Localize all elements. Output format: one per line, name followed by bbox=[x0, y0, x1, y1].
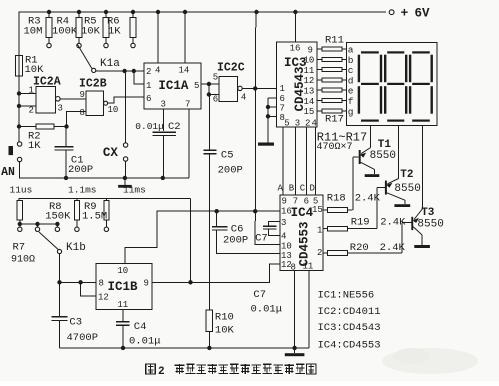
resistor R19 2.4K bbox=[323, 217, 406, 232]
svg-text:IC1A: IC1A bbox=[158, 79, 189, 93]
svg-text:IC2A: IC2A bbox=[33, 76, 61, 89]
pin 4 IC3 / wire D to IC4 pin 5 bbox=[312, 119, 317, 196]
gate IC2A (CD4011) bbox=[33, 76, 61, 113]
svg-text:10K: 10K bbox=[215, 325, 235, 337]
resistor R18 2.4K bbox=[323, 193, 381, 213]
pin 16 IC3 wire to rail bbox=[290, 12, 301, 54]
label C7 0.01u bbox=[251, 289, 283, 316]
svg-text:g: g bbox=[348, 106, 354, 117]
wire K1b wiper to IC1B pin8 bbox=[57, 254, 96, 285]
wire bottom ground rail bbox=[60, 346, 310, 350]
pin 8 IC3 bbox=[268, 113, 285, 123]
gate IC2C (CD4011) bbox=[217, 62, 245, 102]
svg-text:1.1ms: 1.1ms bbox=[68, 184, 97, 195]
pin 14 IC1A wire to rail bbox=[179, 12, 190, 76]
svg-text:10K: 10K bbox=[25, 64, 45, 76]
pin 1 IC2A bbox=[19, 86, 36, 96]
svg-text:0.01μ: 0.01μ bbox=[129, 336, 161, 348]
ground symbol T2 bbox=[394, 204, 410, 207]
resistor R20 2.4K bbox=[323, 242, 406, 255]
capacitor C1 200P bbox=[55, 128, 94, 178]
svg-text:IC3:CD4543: IC3:CD4543 bbox=[318, 322, 381, 334]
pin 2 IC1A bbox=[146, 67, 151, 77]
svg-text:C: C bbox=[300, 184, 306, 194]
label R17 bbox=[325, 114, 344, 126]
svg-text:IC2C: IC2C bbox=[217, 62, 245, 75]
svg-text:8: 8 bbox=[99, 279, 104, 289]
decoder IC3 CD4543 bbox=[277, 42, 317, 127]
svg-text:0.01μ: 0.01μ bbox=[251, 304, 283, 316]
svg-text:470Ω×7: 470Ω×7 bbox=[317, 142, 353, 153]
wire IC1B pin10 to IC4 pin16 (with C6 tap) bbox=[125, 209, 280, 263]
svg-text:R11: R11 bbox=[325, 35, 344, 47]
pin 12 IC1B bbox=[98, 293, 109, 303]
svg-text:T2: T2 bbox=[400, 169, 413, 181]
counter IC4 CD4553 bbox=[280, 195, 323, 271]
pin 10 IC4 bbox=[281, 242, 292, 252]
svg-text:200P: 200P bbox=[68, 164, 93, 176]
svg-text:IC2:CD4011: IC2:CD4011 bbox=[318, 306, 381, 318]
pin 4 IC1A wire to rail bbox=[155, 12, 160, 76]
caption figure 2 (Chinese) bbox=[146, 364, 316, 378]
label IC1:NE556 bbox=[318, 290, 375, 302]
pin 7 IC4 bbox=[293, 197, 298, 207]
svg-text:3: 3 bbox=[281, 218, 286, 228]
ground symbol T1 bbox=[365, 174, 380, 177]
svg-text:8550: 8550 bbox=[370, 150, 396, 162]
svg-text:+: + bbox=[401, 6, 409, 21]
label R11~R17 470ohm x 7 bbox=[317, 130, 368, 153]
svg-text:9: 9 bbox=[144, 279, 149, 289]
svg-text:150K: 150K bbox=[45, 211, 71, 223]
svg-text:8550: 8550 bbox=[394, 183, 420, 195]
svg-text:3: 3 bbox=[161, 100, 166, 110]
wire branch to IC1B pin12 bbox=[81, 282, 96, 296]
wire IC1A pin5 to IC2C inputs bbox=[201, 82, 219, 97]
svg-text:2: 2 bbox=[158, 366, 165, 378]
svg-text:C7: C7 bbox=[253, 289, 266, 301]
svg-text:2: 2 bbox=[29, 105, 34, 115]
svg-text:5: 5 bbox=[194, 81, 199, 91]
svg-text:3: 3 bbox=[58, 104, 63, 114]
svg-text:200P: 200P bbox=[223, 235, 248, 247]
pin 8 IC1B bbox=[99, 279, 104, 289]
svg-text:13: 13 bbox=[304, 87, 315, 97]
svg-text:200P: 200P bbox=[218, 165, 243, 177]
node +6V terminal bbox=[389, 6, 430, 21]
svg-text:R17: R17 bbox=[325, 114, 344, 126]
pin 1 IC4 bbox=[317, 226, 322, 236]
svg-text:14: 14 bbox=[304, 97, 315, 107]
timer IC1A (NE556 half) bbox=[144, 63, 201, 109]
ground symbol bottom rail bbox=[285, 348, 305, 356]
svg-text:11: 11 bbox=[304, 66, 315, 76]
capacitor C3 4700P bbox=[52, 282, 99, 348]
pin 5 IC1A bbox=[194, 81, 199, 91]
svg-text:10K: 10K bbox=[81, 26, 101, 38]
pin 5 IC3 / wire A to IC4 pin 9 bbox=[283, 119, 290, 196]
pin 1 IC3 bbox=[280, 84, 285, 94]
junction dots on top rail bbox=[47, 10, 298, 14]
svg-text:C7: C7 bbox=[255, 233, 268, 245]
pin 9 IC4 bbox=[282, 197, 287, 207]
gate IC2B (CD4011) bbox=[79, 78, 107, 116]
pin 6 IC2C bbox=[213, 94, 218, 104]
svg-text:IC1B: IC1B bbox=[108, 280, 139, 294]
svg-text:R18: R18 bbox=[327, 193, 346, 205]
wire IC4 pin13 from C6 bbox=[0, 0, 1, 1]
svg-text:11us: 11us bbox=[10, 185, 33, 196]
pin 9 IC1B bbox=[144, 279, 149, 289]
pin 10 IC1B bbox=[117, 266, 128, 276]
svg-text:6: 6 bbox=[213, 94, 218, 104]
svg-text:11: 11 bbox=[117, 300, 128, 310]
svg-text:5: 5 bbox=[213, 72, 218, 82]
node CX capacitor under test bbox=[103, 73, 128, 178]
svg-text:6V: 6V bbox=[415, 7, 431, 21]
svg-text:16: 16 bbox=[281, 207, 292, 217]
junction dots ground bus bbox=[64, 176, 165, 180]
label IC2:CD4011 bbox=[318, 306, 381, 318]
svg-text:IC4: IC4 bbox=[291, 206, 314, 220]
capacitor C2 0.01u bbox=[135, 121, 180, 178]
capacitor C7 (IC4 pins 3-4) bbox=[255, 222, 280, 245]
pin 6 IC4 bbox=[304, 197, 309, 207]
svg-text:CD4553: CD4553 bbox=[297, 221, 311, 266]
svg-text:2: 2 bbox=[146, 67, 151, 77]
wire R8 rail down to pin9 net bbox=[190, 199, 192, 283]
svg-text:IC2B: IC2B bbox=[79, 78, 107, 91]
capacitor C5 200P bbox=[203, 95, 243, 310]
wire +6V top supply rail bbox=[19, 12, 386, 144]
pin 2 IC4 bbox=[317, 248, 322, 258]
wire display digit3 to T3 emitter bbox=[421, 126, 423, 210]
label IC4:CD4553 bbox=[318, 340, 381, 352]
svg-text:10: 10 bbox=[117, 266, 128, 276]
svg-text:4: 4 bbox=[241, 92, 246, 102]
pin 9 IC2B bbox=[80, 90, 85, 100]
resistors R11-R17 470 ohm x7 bbox=[317, 47, 347, 113]
ground symbol IC3 bbox=[258, 143, 274, 146]
svg-text:16: 16 bbox=[290, 44, 301, 54]
svg-text:1K: 1K bbox=[108, 26, 121, 38]
wire R18 to T1 base bbox=[352, 157, 354, 210]
pin 4 IC2C output bubble bbox=[238, 86, 247, 102]
pin 15 IC4 bbox=[312, 205, 323, 215]
svg-text:12: 12 bbox=[304, 76, 315, 86]
svg-text:15: 15 bbox=[304, 107, 315, 117]
svg-text:7: 7 bbox=[185, 100, 190, 110]
svg-text:10: 10 bbox=[304, 56, 315, 66]
svg-text:K1a: K1a bbox=[100, 58, 120, 70]
wire IC2C out to IC3 pin1 bbox=[242, 86, 276, 90]
wire display digit1 to T1 emitter bbox=[370, 126, 372, 148]
wire IC1B pin9 to IC4 pin12 bbox=[152, 264, 280, 285]
wire AN bottom to ground bus bbox=[20, 162, 189, 178]
resistor R3 10M bbox=[24, 12, 53, 48]
svg-text:9: 9 bbox=[282, 197, 287, 207]
svg-text:C2: C2 bbox=[168, 121, 181, 133]
svg-text:10: 10 bbox=[108, 105, 119, 115]
label IC3:CD4543 bbox=[318, 322, 381, 334]
label 1.1ms bbox=[68, 184, 97, 195]
switch K1a wiper bbox=[78, 45, 121, 73]
label 11us bbox=[10, 185, 33, 196]
wire IC4 pin11 to rail bbox=[308, 271, 310, 348]
svg-text:10M: 10M bbox=[24, 26, 43, 38]
pin 2 IC2A bbox=[19, 105, 36, 115]
pin 11 IC4 bbox=[303, 262, 314, 272]
svg-text:IC4:CD4553: IC4:CD4553 bbox=[318, 340, 381, 352]
label R11 bbox=[325, 35, 344, 47]
svg-text:14: 14 bbox=[179, 66, 190, 76]
resistor R10 10K bbox=[206, 310, 234, 348]
svg-text:3: 3 bbox=[295, 119, 300, 129]
wire IC2A pin3 to IC2B pin9 bbox=[60, 98, 86, 100]
svg-text:1: 1 bbox=[29, 86, 34, 96]
svg-text:IC1:NE556: IC1:NE556 bbox=[318, 290, 375, 302]
svg-text:2: 2 bbox=[305, 119, 310, 129]
switch K1b wiper bbox=[39, 232, 86, 254]
label 11ms bbox=[123, 184, 146, 195]
svg-text:R19: R19 bbox=[351, 217, 370, 229]
pin 10 IC2B output bubble bbox=[104, 101, 119, 115]
svg-text:T3: T3 bbox=[421, 207, 435, 219]
svg-text:D: D bbox=[310, 184, 315, 194]
timer IC1B (NE556 half) bbox=[96, 263, 152, 309]
svg-text:10: 10 bbox=[281, 242, 292, 252]
svg-text:4: 4 bbox=[281, 232, 286, 242]
resistor R4 100K bbox=[52, 12, 82, 48]
resistor R5 10K bbox=[81, 12, 109, 48]
pin 2 IC3 / wire C to IC4 pin 6 bbox=[305, 119, 310, 196]
pin 12 IC4 bbox=[281, 260, 292, 270]
svg-text:R10: R10 bbox=[215, 312, 234, 324]
transistor T3 8550 bbox=[402, 207, 444, 245]
svg-text:C4: C4 bbox=[134, 321, 147, 333]
svg-text:1: 1 bbox=[280, 84, 285, 94]
pin 4 IC4 bbox=[281, 232, 286, 242]
resistor R8 150K bbox=[45, 199, 79, 232]
svg-text:AN: AN bbox=[1, 166, 15, 179]
pin 5 IC2C bbox=[213, 72, 218, 82]
svg-text:7: 7 bbox=[293, 197, 298, 207]
svg-text:8: 8 bbox=[80, 108, 85, 118]
svg-text:11ms: 11ms bbox=[123, 184, 146, 195]
wire IC3 pins 6,7,8 to ground bbox=[266, 98, 270, 143]
3-digit 7-segment LED display bbox=[347, 42, 438, 125]
wire IC2B pin10 to IC1A pin6 bbox=[108, 97, 145, 103]
svg-text:6: 6 bbox=[304, 197, 309, 207]
svg-text:4700P: 4700P bbox=[67, 332, 99, 344]
wire display digit2 to T2 emitter bbox=[398, 126, 400, 179]
svg-text:7: 7 bbox=[280, 103, 285, 113]
resistor R6 1K bbox=[107, 12, 136, 48]
junction R2/C1/IC2B pin8 bbox=[64, 124, 68, 128]
transistor T1 8550 bbox=[353, 139, 396, 174]
svg-text:R7: R7 bbox=[13, 242, 26, 254]
svg-text:4: 4 bbox=[312, 119, 317, 129]
pin 3 IC3 / wire B to IC4 pin 7 bbox=[295, 119, 300, 196]
svg-text:K1b: K1b bbox=[66, 242, 86, 254]
node C bbox=[300, 184, 306, 194]
push button AN bbox=[1, 142, 22, 179]
resistor R2 1K bbox=[19, 124, 67, 152]
pin 5 IC4 bbox=[313, 197, 318, 207]
svg-text:B: B bbox=[289, 184, 295, 194]
wire R19 to T2 base bbox=[376, 188, 378, 229]
wire K1b contact bar bbox=[18, 222, 60, 227]
pin 3 IC4 bbox=[281, 218, 286, 228]
capacitor C6 200P bbox=[212, 211, 280, 253]
svg-text:C5: C5 bbox=[221, 150, 234, 162]
pin 8 IC2B bbox=[67, 108, 86, 126]
wire timing resistor rail bbox=[19, 199, 191, 201]
ground symbol at CX bbox=[118, 178, 132, 188]
resistor R7 910ohm bbox=[11, 200, 35, 265]
svg-text:910Ω: 910Ω bbox=[11, 255, 35, 266]
svg-text:6: 6 bbox=[146, 94, 151, 104]
resistor R9 1.5M bbox=[82, 199, 109, 232]
node B bbox=[289, 184, 295, 194]
pin 11 IC1B bbox=[117, 300, 128, 310]
pin 13 IC4 bbox=[281, 251, 292, 261]
svg-text:4: 4 bbox=[155, 66, 160, 76]
svg-text:1K: 1K bbox=[28, 140, 41, 152]
ground symbol T3 bbox=[414, 245, 430, 248]
node D bbox=[310, 184, 315, 194]
svg-text:1.5M: 1.5M bbox=[82, 211, 107, 223]
capacitor C4 0.01u bbox=[116, 309, 160, 348]
svg-text:R20: R20 bbox=[350, 242, 369, 254]
svg-text:5: 5 bbox=[284, 119, 289, 129]
wire R20 to T3 base bbox=[401, 223, 403, 254]
resistor R1 10K bbox=[16, 55, 44, 77]
svg-text:100K: 100K bbox=[52, 26, 78, 38]
pin 16 IC4 bbox=[281, 207, 292, 217]
svg-text:12: 12 bbox=[98, 293, 109, 303]
svg-text:11: 11 bbox=[303, 262, 314, 272]
svg-text:A: A bbox=[278, 184, 284, 194]
wire IC4 pin8 to rail bbox=[294, 271, 296, 348]
svg-text:C3: C3 bbox=[69, 317, 82, 329]
svg-text:2: 2 bbox=[317, 248, 322, 258]
junction dots left rail bbox=[17, 91, 21, 128]
pin 7 IC3 bbox=[268, 103, 285, 113]
K1b throw contacts bbox=[18, 227, 60, 231]
pin 8 IC4 bbox=[291, 263, 296, 273]
pin 7 IC1A wire down to ground bus bbox=[185, 100, 190, 178]
svg-text:8550: 8550 bbox=[417, 219, 443, 231]
pin 1 IC1A bbox=[146, 81, 151, 91]
pin 6 IC1A bbox=[146, 94, 151, 104]
svg-text:0.01μ: 0.01μ bbox=[135, 121, 164, 132]
pin 6 IC3 bbox=[268, 94, 285, 104]
svg-text:CX: CX bbox=[103, 146, 119, 160]
transistor T2 8550 bbox=[377, 169, 421, 204]
wire K1a to IC1A pins 2,1 bbox=[96, 69, 144, 84]
node A bbox=[278, 184, 284, 194]
pin 3 IC2A output bubble bbox=[56, 97, 63, 114]
svg-text:1: 1 bbox=[317, 226, 322, 236]
wire IC2C out down to IC4 pin10/16 net bbox=[255, 12, 280, 245]
svg-text:9: 9 bbox=[80, 90, 85, 100]
svg-text:15: 15 bbox=[312, 205, 323, 215]
pin labels IC3 9-15 bbox=[304, 45, 315, 117]
pin 3 IC1A bbox=[161, 100, 166, 132]
svg-text:9: 9 bbox=[308, 45, 313, 55]
svg-text:1: 1 bbox=[146, 81, 151, 91]
